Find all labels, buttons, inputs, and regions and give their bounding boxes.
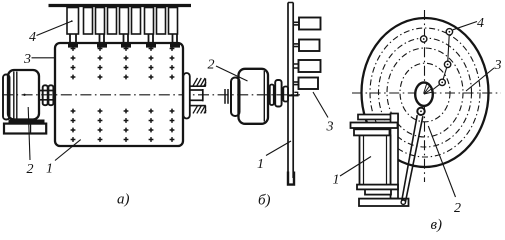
fig b: label 3 leader — [313, 92, 328, 118]
fig b: hub stub through plate — [289, 94, 299, 96]
fig a: plus-mark column 2 — [98, 46, 103, 142]
fig v: hub shading lines — [424, 84, 433, 94]
fig a: label 3 leader — [32, 57, 55, 59]
svg-text:2: 2 — [454, 201, 461, 216]
fig v: dash-dot ring 1 — [370, 28, 480, 157]
fig v: label 4 leader — [453, 22, 477, 30]
fig b: coupling disc 2 — [275, 80, 281, 107]
fig v: dash-dot ring 4 — [400, 63, 450, 122]
fig a: motor M1 shaft dot — [23, 94, 25, 96]
fig a: coupling disc1 — [43, 85, 48, 105]
fig v: vertical centerline — [424, 10, 426, 182]
fig b: motor M2 end cap — [231, 78, 240, 117]
fig v: label 3 leader — [466, 68, 494, 91]
fig a: hanger V9 — [169, 8, 178, 35]
svg-text:в): в) — [431, 217, 443, 233]
fig a: output shaft — [190, 89, 203, 91]
svg-text:1: 1 — [46, 162, 53, 177]
svg-text:1: 1 — [333, 173, 340, 188]
fig a: bearing lower block top line — [190, 105, 206, 107]
fig a: top mounting rail — [49, 4, 192, 7]
fig a: motor M1 end cap — [3, 75, 10, 120]
fig a: label 1 leader — [55, 140, 81, 161]
fig b: shaft motor to coupling — [268, 91, 270, 93]
fig b: plate bottom end cap — [288, 172, 294, 185]
fig b: motor M2 body — [239, 69, 269, 124]
fig a: motor M1 base plate — [4, 124, 46, 134]
fig v: bolt A — [421, 36, 427, 42]
fig a: hanger V8 — [157, 8, 166, 35]
fig b: electromagnet E3 — [299, 60, 321, 72]
fig a: V7 legs — [148, 34, 150, 44]
fig b: electromagnet E2 stem — [293, 43, 299, 45]
fig v: dash-dot ring 2 — [379, 38, 472, 147]
fig a: bearing upper block base line — [190, 85, 206, 87]
fig b: label 1 leader — [266, 141, 291, 156]
fig a: bearing upper block hatching — [193, 78, 206, 86]
fig a: hanger V3 — [96, 8, 105, 35]
fig v: bracket vertical bar — [391, 114, 399, 199]
svg-text:1: 1 — [257, 157, 264, 172]
svg-text:4: 4 — [29, 30, 36, 45]
fig v: bobbin bottom flange — [357, 185, 398, 190]
fig a: bearing lower block hatching — [193, 106, 206, 114]
fig v: horizontal centerline — [352, 92, 501, 94]
fig a: V1 legs — [69, 34, 71, 44]
fig b: electromagnet E1 — [299, 18, 321, 30]
fig v: bottom plate — [365, 189, 391, 194]
svg-text:а): а) — [117, 192, 130, 208]
fig b: electromagnet E2 — [299, 40, 320, 52]
svg-text:3: 3 — [494, 58, 502, 73]
fig a: label 4 leader — [37, 21, 72, 35]
fig a: V3 foot — [97, 43, 107, 47]
fig v: bolt C — [444, 61, 450, 67]
fig a: V3 legs — [99, 34, 101, 44]
fig a: V9 legs — [172, 34, 174, 44]
fig v: outer disc ellipse — [362, 18, 489, 167]
svg-text:3: 3 — [23, 52, 31, 67]
fig a: hanger V5 — [120, 8, 129, 35]
fig v: label 1 leader — [340, 157, 371, 177]
svg-text:2: 2 — [208, 58, 215, 73]
fig a: motor M1 body — [8, 70, 39, 120]
fig a: V5 legs — [123, 34, 125, 44]
svg-text:3: 3 — [326, 120, 334, 135]
fig b: coupling disc 3 — [283, 87, 288, 102]
fig a: hanger V6 — [132, 8, 141, 35]
fig v: eccentric pin — [417, 108, 424, 115]
fig v: bracket arm — [358, 115, 398, 120]
fig a: motor M1 stator lines — [13, 72, 15, 119]
fig a: plus-mark column 3 — [124, 46, 129, 142]
fig v: base foot plate — [359, 199, 409, 206]
fig v: solenoid top plate — [351, 123, 398, 129]
fig a: horizontal centerline — [2, 94, 300, 96]
fig a: motor M1 mounting bar — [9, 120, 45, 124]
fig v: foot pivot hole — [401, 200, 405, 204]
fig b: electromagnet E3 stem — [293, 63, 298, 65]
fig a: coupling disc2 — [48, 85, 53, 105]
fig v: connecting rod right edge — [405, 116, 423, 202]
fig v: dash-dot ring 3 — [387, 48, 463, 137]
fig a: label 2 leader — [28, 107, 30, 160]
fig a: plus-mark column 5 — [170, 46, 175, 142]
fig a: V9 foot — [170, 43, 180, 47]
fig b: label 2 leader — [216, 66, 248, 81]
fig v: bolt B — [446, 29, 452, 35]
fig b: left shaft stub ticks — [224, 89, 226, 104]
fig v: label 2 leader — [428, 126, 455, 197]
fig a: hanger V4 — [108, 8, 117, 35]
fig a: hanger V7 — [145, 8, 154, 35]
fig a: drum body — [55, 43, 183, 146]
fig v: bobbin top flange — [354, 129, 390, 135]
fig v: connecting rod left edge — [402, 115, 418, 201]
fig v: coil body — [360, 135, 391, 185]
fig a: plus-mark column 1 — [71, 46, 76, 142]
fig v: radial line through bolts — [429, 32, 449, 93]
fig a: right trunnion flange — [183, 73, 189, 119]
fig a: V5 foot — [121, 43, 131, 47]
fig v: hub ellipse — [415, 83, 433, 106]
fig b: coupling disc 1 — [270, 85, 274, 106]
fig b: electromagnet E1 stem — [293, 21, 299, 23]
fig a: hanger V2 — [84, 8, 93, 35]
svg-text:2: 2 — [27, 162, 34, 177]
fig b: electromagnet E4 stem — [293, 81, 298, 83]
fig a: plus-mark column 4 — [149, 46, 154, 142]
fig a: shaft motor to drum — [38, 90, 55, 92]
fig a: vibrator hanger V1 (wide) — [67, 8, 79, 35]
fig b: electromagnet E4 — [299, 78, 319, 90]
svg-text:б): б) — [258, 193, 271, 209]
fig b: disc plate edge-on — [287, 3, 289, 179]
fig a: V7 foot — [146, 43, 156, 47]
fig v: bolt D — [439, 79, 445, 85]
fig b: motor M2 inner line — [263, 71, 265, 122]
fig a: V1 foot — [68, 43, 78, 47]
fig v: coil inner lines — [363, 135, 365, 185]
svg-text:4: 4 — [477, 16, 484, 31]
